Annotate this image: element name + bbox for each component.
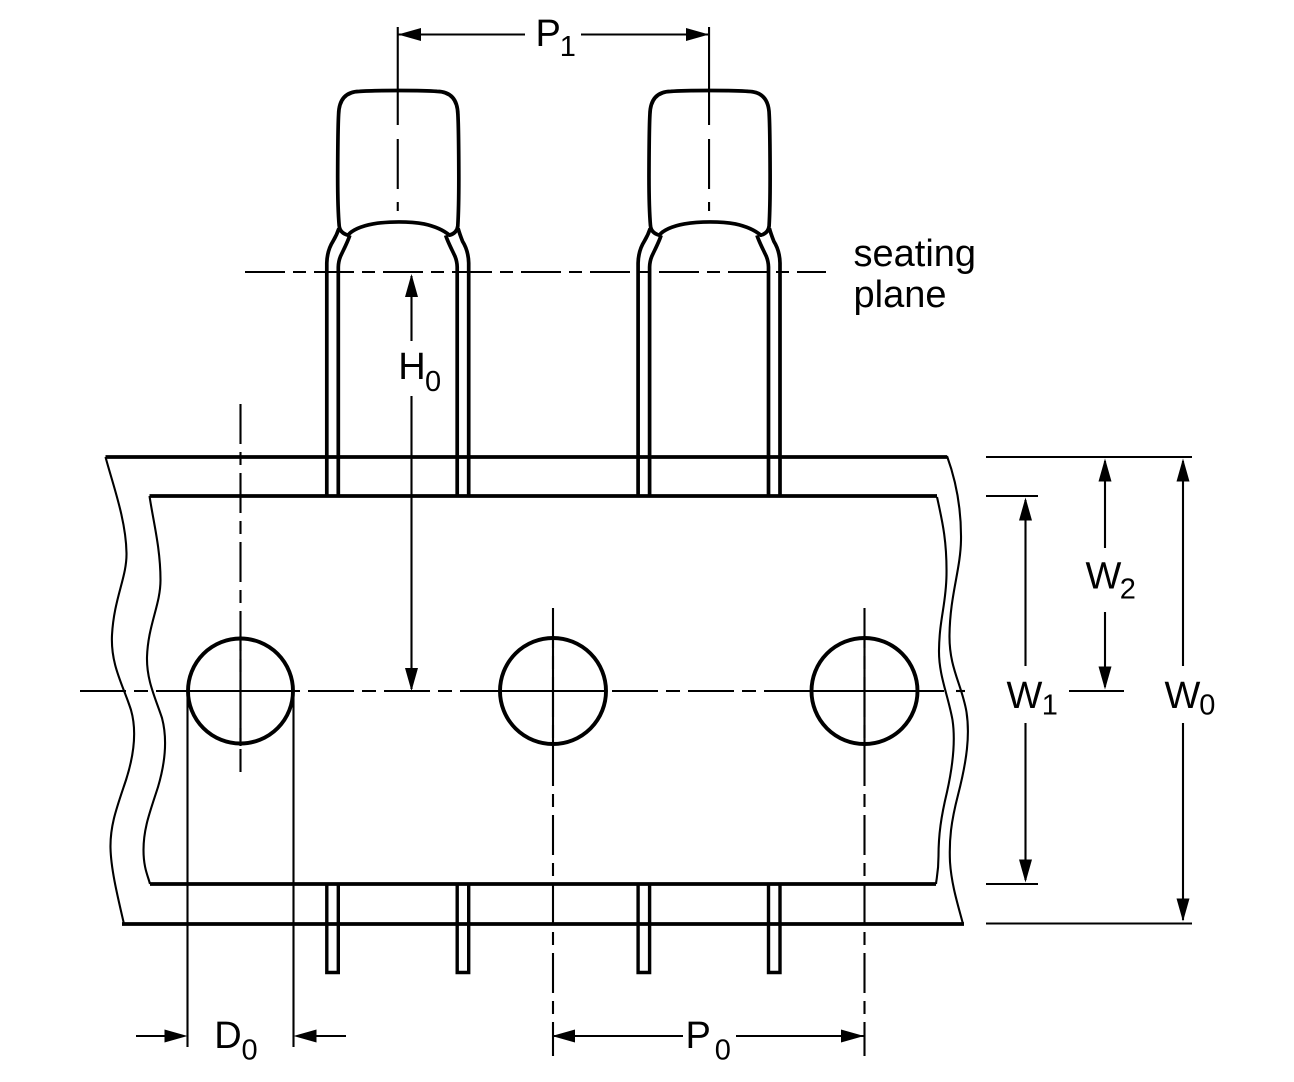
- svg-text:0: 0: [715, 1035, 731, 1067]
- svg-text:H: H: [398, 346, 425, 388]
- svg-text:W: W: [1007, 675, 1043, 717]
- svg-text:P: P: [536, 13, 561, 55]
- svg-text:0: 0: [242, 1035, 258, 1067]
- svg-text:W: W: [1165, 675, 1201, 717]
- svg-text:2: 2: [1120, 574, 1136, 606]
- svg-text:0: 0: [425, 366, 441, 398]
- svg-text:plane: plane: [854, 274, 947, 316]
- svg-text:1: 1: [560, 31, 576, 63]
- svg-text:P: P: [686, 1015, 711, 1057]
- svg-text:0: 0: [1199, 690, 1215, 722]
- svg-text:W: W: [1086, 556, 1122, 598]
- svg-text:D: D: [214, 1015, 241, 1057]
- svg-text:seating: seating: [854, 233, 977, 275]
- svg-text:1: 1: [1042, 690, 1058, 722]
